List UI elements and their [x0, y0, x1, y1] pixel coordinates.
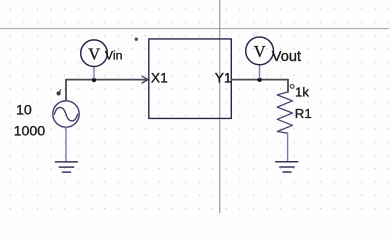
wire from Y1 to resistor branch	[231, 79, 288, 81]
probe Vin circle	[81, 40, 108, 67]
probe Vin stem	[93, 66, 95, 78]
ground under V1	[56, 162, 78, 172]
svg-text:Vin: Vin	[105, 49, 123, 63]
svg-text:V: V	[254, 42, 266, 61]
svg-text:V: V	[88, 45, 100, 64]
svg-text:Vout: Vout	[272, 49, 301, 65]
junction dot at Vin node	[92, 78, 96, 82]
property marker of R1	[290, 85, 294, 89]
voltage source V1	[53, 101, 79, 127]
svg-text:1000: 1000	[14, 124, 46, 140]
ground under R1	[276, 162, 298, 172]
probe Vout stem	[259, 65, 261, 79]
property dot of X1	[135, 38, 138, 41]
svg-text:Y1: Y1	[215, 71, 232, 86]
wire from V1 to ground	[65, 127, 67, 161]
svg-text:R1: R1	[295, 106, 312, 121]
faint marker above Vout	[254, 32, 258, 36]
svg-text:X1: X1	[151, 71, 168, 86]
resistor R1	[277, 92, 292, 133]
probe Vout circle	[246, 37, 274, 65]
svg-text:10: 10	[16, 102, 32, 118]
wire from source to X1 input	[66, 80, 146, 101]
wire from R1 to ground	[287, 133, 289, 161]
input pin arrow at X1	[142, 76, 148, 83]
subcircuit box X1	[149, 39, 232, 119]
svg-text:1k: 1k	[295, 85, 309, 100]
phase marker of V1	[57, 90, 61, 95]
junction dot at Vout node	[257, 78, 261, 82]
wire from Vout node down to R1	[287, 80, 289, 92]
